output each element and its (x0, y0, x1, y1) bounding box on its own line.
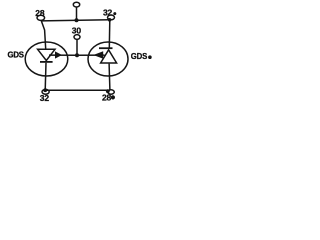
svg-text:32: 32 (103, 7, 113, 17)
wire: bottom bus line (45, 89, 110, 91)
wire: right vertical from top bus into right unit (108, 20, 111, 48)
junction dot bottom left (43, 88, 47, 92)
wire: mid horizontal to right unit (77, 54, 105, 56)
svg-text:GDS: GDS (8, 50, 24, 59)
diode D1 cathode bar (40, 61, 53, 63)
wire: top bus line (42, 20, 111, 21)
diode arrow A1 (left unit, pointing right) (55, 51, 62, 58)
svg-text:28: 28 (102, 92, 112, 102)
svg-text:30: 30 (72, 25, 82, 35)
diode arrow A2 (right unit, pointing left) (93, 51, 103, 58)
svg-text:32: 32 (40, 93, 50, 103)
suppressor unit GDS circle (left) (25, 42, 68, 76)
diode D2 triangle (right unit, pointing up) (101, 50, 117, 63)
junction dot bottom right (106, 89, 110, 93)
terminal T-top (top center) (73, 2, 79, 7)
terminal 32-dot circle (108, 15, 115, 20)
junction dot at top bus center (75, 18, 79, 22)
wire: left vertical below diode to bottom bus (44, 63, 47, 90)
diode D2 cathode bar (99, 47, 113, 49)
junction dot at top right (108, 18, 112, 22)
wire: slant from terminal 28 down to left unit (41, 21, 46, 50)
wire: stub from 30 terminal to mid junction (76, 39, 78, 55)
wire: right vertical below diode to bottom bus (108, 64, 111, 91)
svg-text:GDS: GDS (131, 52, 147, 61)
junction dot mid (75, 53, 79, 57)
wire: mid horizontal to left unit (49, 54, 77, 56)
suppressor unit GDS-dot circle (right) (88, 42, 128, 76)
terminal 28-dot circle (bottom right) (108, 90, 115, 94)
terminal 30 circle (74, 35, 80, 40)
svg-text:28: 28 (35, 8, 45, 18)
terminal 32 circle (bottom left) (42, 89, 49, 94)
wire: stub from top terminal to top bus (76, 7, 78, 20)
diode D1 triangle (left unit, pointing down) (38, 49, 55, 60)
terminal 28 circle (37, 15, 45, 20)
